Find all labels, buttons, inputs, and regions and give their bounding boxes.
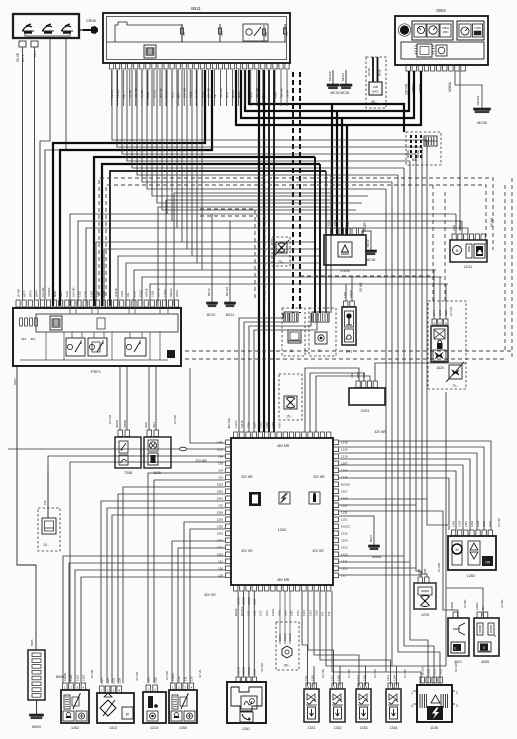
svg-text:1303: 1303 [259, 422, 263, 428]
svg-text:48V MR: 48V MR [227, 417, 231, 429]
svg-text:1152: 1152 [341, 504, 348, 508]
svg-text:8000: 8000 [56, 675, 64, 679]
svg-text:10V VE: 10V VE [157, 288, 161, 297]
svg-text:1312: 1312 [308, 610, 312, 616]
svg-text:1219C: 1219C [234, 420, 238, 428]
svg-text:2V BE: 2V BE [500, 599, 504, 608]
svg-text:1312: 1312 [109, 726, 117, 730]
svg-text:1320: 1320 [90, 291, 94, 297]
svg-text:F15: F15 [220, 30, 224, 36]
svg-text:MC30 MC52: MC30 MC52 [330, 91, 349, 95]
svg-text:F10: F10 [264, 31, 268, 37]
svg-text:134: 134 [346, 221, 350, 226]
svg-text:9013: 9013 [59, 291, 63, 297]
svg-text:2845B: 2845B [123, 420, 127, 428]
svg-text:CC13: CC13 [138, 290, 142, 297]
svg-text:1325: 1325 [83, 291, 87, 297]
svg-text:1365: 1365 [417, 569, 421, 575]
svg-text:CC1: CC1 [33, 51, 37, 57]
svg-text:1303: 1303 [151, 291, 155, 297]
svg-text:122: 122 [218, 504, 223, 508]
svg-text:16V: 16V [350, 373, 354, 378]
svg-text:132B: 132B [423, 569, 427, 575]
svg-text:7308: 7308 [124, 471, 132, 475]
svg-text:3V VE: 3V VE [16, 53, 20, 62]
svg-text:2V NR: 2V NR [165, 670, 169, 680]
svg-text:1301: 1301 [310, 675, 314, 681]
svg-text:1232: 1232 [341, 532, 348, 536]
svg-text:4301: 4301 [277, 422, 281, 428]
svg-text:4V NR: 4V NR [260, 662, 264, 672]
svg-text:V0305A: V0305A [47, 287, 51, 297]
svg-text:901B: 901B [378, 69, 382, 76]
svg-text:B511: B511 [191, 6, 201, 11]
svg-text:S017: S017 [13, 378, 17, 385]
svg-text:1313: 1313 [302, 610, 306, 616]
svg-text:CR06: CR06 [86, 19, 96, 23]
svg-text:KM/H: KM/H [442, 26, 449, 30]
svg-text:6V GR: 6V GR [454, 662, 458, 672]
svg-text:F6: F6 [285, 32, 289, 36]
svg-text:9320: 9320 [444, 310, 448, 316]
svg-text:32V GR: 32V GR [204, 593, 216, 597]
svg-text:8V NR: 8V NR [16, 289, 20, 297]
svg-text:6904: 6904 [253, 422, 257, 428]
svg-text:9150: 9150 [277, 610, 281, 616]
svg-text:70--: 70-- [317, 349, 323, 353]
svg-text:1341: 1341 [217, 497, 224, 501]
svg-text:PSF1: PSF1 [91, 369, 102, 374]
svg-text:1353: 1353 [217, 483, 224, 487]
svg-text:10--: 10-- [43, 543, 49, 547]
svg-text:1342: 1342 [132, 291, 136, 297]
svg-text:10V NR: 10V NR [71, 288, 75, 297]
svg-text:MC35: MC35 [477, 121, 487, 125]
svg-text:131: 131 [321, 611, 325, 616]
svg-text:1344: 1344 [432, 310, 436, 316]
svg-text:1620: 1620 [436, 366, 444, 370]
svg-text:2820: 2820 [144, 422, 148, 428]
svg-text:MC308: MC308 [328, 71, 332, 81]
svg-text:BPT7: BPT7 [22, 290, 26, 297]
svg-text:4: 4 [411, 704, 413, 708]
svg-text:M021: M021 [369, 535, 373, 542]
svg-text:MC11: MC11 [226, 313, 235, 317]
svg-text:1351B: 1351B [108, 289, 112, 297]
svg-text:M132C: M132C [341, 525, 350, 529]
svg-text:1352: 1352 [71, 726, 79, 730]
svg-text:MC32: MC32 [341, 73, 345, 81]
svg-text:32V NR: 32V NR [313, 475, 325, 479]
svg-text:ON: ON [485, 561, 490, 565]
svg-text:1214: 1214 [386, 675, 390, 681]
svg-text:1131: 1131 [246, 610, 250, 616]
svg-text:1352: 1352 [438, 669, 442, 675]
svg-text:133: 133 [341, 574, 346, 578]
svg-text:2: 2 [456, 691, 458, 695]
svg-text:1300: 1300 [246, 422, 250, 428]
svg-text:MC10: MC10 [207, 313, 216, 317]
svg-text:124: 124 [218, 476, 223, 480]
svg-text:2V NR: 2V NR [359, 282, 363, 292]
svg-text:HPF3: HPF3 [175, 290, 179, 297]
svg-text:TURN: TURN [474, 27, 481, 30]
svg-text:GN1211: GN1211 [458, 221, 462, 231]
svg-text:3050E: 3050E [247, 597, 251, 605]
svg-text:M008A: M008A [448, 81, 452, 92]
svg-text:1135A: 1135A [271, 608, 275, 616]
svg-text:1350A: 1350A [171, 673, 175, 681]
svg-text:1261: 1261 [242, 727, 250, 731]
svg-text:1351: 1351 [432, 669, 436, 675]
svg-text:1353: 1353 [179, 726, 187, 730]
svg-text:/1351B: /1351B [114, 288, 118, 297]
svg-text:I241: I241 [346, 350, 353, 354]
svg-text:MC30: MC30 [367, 258, 376, 262]
svg-text:1353: 1353 [75, 675, 79, 681]
svg-text:F4: F4 [182, 32, 186, 36]
svg-text:32V NR: 32V NR [241, 475, 253, 479]
svg-text:1307C: 1307C [236, 597, 240, 605]
svg-text:1219: 1219 [341, 455, 348, 459]
svg-text:1333: 1333 [360, 726, 368, 730]
svg-text:1300: 1300 [217, 448, 224, 452]
svg-text:6132: 6132 [65, 291, 69, 297]
svg-text:4V GR: 4V GR [135, 671, 139, 681]
svg-text:1341B: 1341B [240, 420, 244, 428]
svg-text:BAG: BAG [372, 90, 379, 94]
svg-text:1212: 1212 [330, 675, 334, 681]
svg-text:1304: 1304 [392, 675, 396, 681]
svg-text:15--: 15-- [289, 349, 295, 353]
svg-text:2V NR: 2V NR [173, 414, 177, 424]
svg-text:1213: 1213 [356, 675, 360, 681]
svg-text:2V NR: 2V NR [321, 668, 325, 678]
svg-text:48V MR: 48V MR [277, 578, 290, 582]
svg-text:1330: 1330 [253, 599, 257, 605]
svg-text:1332: 1332 [334, 726, 342, 730]
svg-text:1: 1 [411, 691, 413, 695]
svg-text:9005: 9005 [53, 291, 57, 297]
svg-text:4V VE: 4V VE [198, 669, 202, 678]
svg-text:1316: 1316 [271, 422, 275, 428]
svg-text:130: 130 [190, 676, 194, 681]
svg-text:1211: 1211 [304, 675, 308, 681]
svg-text:1362: 1362 [153, 677, 157, 683]
svg-text:70--: 70-- [278, 260, 284, 264]
svg-text:132: 132 [177, 676, 181, 681]
svg-text:2821: 2821 [152, 422, 156, 428]
svg-text:1334: 1334 [458, 521, 462, 527]
svg-text:1134: 1134 [265, 610, 269, 616]
svg-text:104: 104 [43, 500, 47, 505]
svg-text:1228: 1228 [476, 521, 480, 527]
svg-text:130: 130 [327, 611, 331, 616]
svg-text:48V MR: 48V MR [277, 444, 290, 448]
svg-text:BV: BV [481, 606, 485, 610]
svg-text:6904A: 6904A [234, 608, 238, 616]
svg-text:1352: 1352 [96, 291, 100, 297]
svg-text:2845D: 2845D [115, 420, 119, 428]
svg-text:1322: 1322 [77, 291, 81, 297]
svg-text:1286: 1286 [217, 511, 224, 515]
svg-text:32V NR: 32V NR [374, 430, 386, 434]
svg-text:1035: 1035 [120, 291, 124, 297]
svg-text:1323: 1323 [100, 678, 104, 684]
svg-text:2V NR: 2V NR [403, 668, 407, 678]
svg-text:1353: 1353 [315, 610, 319, 616]
svg-text:6132: 6132 [102, 291, 106, 297]
svg-text:MC30: MC30 [366, 239, 370, 247]
svg-text:15--: 15-- [286, 415, 292, 419]
svg-text:2V NR: 2V NR [347, 668, 351, 678]
svg-text:1345: 1345 [452, 521, 456, 527]
svg-text:M135A: M135A [420, 666, 424, 675]
svg-text:1323: 1323 [341, 546, 348, 550]
svg-text:MC351: MC351 [476, 95, 480, 105]
svg-text:BPT1: BPT1 [21, 54, 25, 62]
svg-text:1361: 1361 [147, 677, 151, 683]
svg-text:1302: 1302 [336, 675, 340, 681]
svg-text:1120: 1120 [153, 471, 161, 475]
svg-text:1151: 1151 [341, 518, 348, 522]
svg-text:MC11A: MC11A [225, 287, 229, 296]
svg-text:80--: 80-- [284, 664, 290, 668]
svg-text:1320: 1320 [278, 528, 286, 532]
svg-text:1350: 1350 [426, 669, 430, 675]
svg-text:134: 134 [218, 455, 223, 459]
svg-text:M: M [456, 249, 459, 253]
svg-text:1262: 1262 [467, 574, 475, 578]
svg-text:C001: C001 [360, 409, 369, 413]
svg-text:1218: 1218 [482, 521, 486, 527]
svg-text:BF4: BF4 [31, 337, 36, 341]
svg-text:6611B: 6611B [367, 68, 371, 76]
svg-text:1320: 1320 [341, 567, 348, 571]
svg-text:1328: 1328 [69, 675, 73, 681]
svg-text:1303: 1303 [362, 675, 366, 681]
svg-text:1228: 1228 [341, 448, 348, 452]
svg-text:MC10: MC10 [207, 288, 211, 296]
svg-text:1324: 1324 [341, 539, 348, 543]
svg-text:GN: GN [126, 293, 130, 297]
svg-text:M: M [456, 548, 459, 552]
svg-text:104: 104 [218, 469, 223, 473]
svg-text:BPF4: BPF4 [35, 290, 39, 297]
svg-text:E: E [454, 647, 456, 651]
svg-text:1325: 1325 [112, 678, 116, 684]
svg-text:1331: 1331 [308, 726, 316, 730]
svg-text:2V GR: 2V GR [108, 414, 112, 424]
svg-text:1367: 1367 [464, 521, 468, 527]
svg-text:1353A: 1353A [163, 289, 167, 297]
svg-text:1334: 1334 [390, 726, 398, 730]
svg-text:1357: 1357 [341, 490, 348, 494]
svg-text:3: 3 [456, 704, 458, 708]
svg-text:MPH: MPH [443, 30, 449, 34]
svg-text:1302: 1302 [265, 422, 269, 428]
svg-text:0004: 0004 [436, 8, 446, 13]
svg-text:10V NR: 10V NR [41, 288, 45, 297]
svg-text:9150: 9150 [333, 220, 337, 226]
svg-text:32V GR: 32V GR [241, 549, 253, 553]
svg-text:1352B: 1352B [63, 673, 67, 681]
svg-text:1355: 1355 [217, 525, 224, 529]
svg-text:1263: 1263 [217, 518, 224, 522]
svg-text:1135: 1135 [430, 726, 438, 730]
svg-text:CV00: CV00 [340, 269, 350, 273]
svg-text:6V NR: 6V NR [490, 217, 494, 227]
svg-text:2V BE: 2V BE [463, 599, 467, 608]
svg-text:GN13A: GN13A [169, 288, 173, 297]
svg-text:1211: 1211 [464, 265, 472, 269]
svg-text:B005: B005 [30, 639, 34, 646]
svg-text:8V BE: 8V BE [90, 669, 94, 678]
svg-text:1235: 1235 [452, 225, 456, 231]
svg-text:1316: 1316 [340, 220, 344, 226]
svg-text:1324: 1324 [106, 678, 110, 684]
svg-text:1340: 1340 [438, 310, 442, 316]
svg-text:1219: 1219 [470, 521, 474, 527]
svg-text:6150: 6150 [327, 220, 331, 226]
svg-text:1363: 1363 [217, 532, 224, 536]
svg-text:2V NR: 2V NR [497, 517, 501, 527]
svg-text:3050B: 3050B [242, 597, 246, 605]
svg-text:1232: 1232 [488, 521, 492, 527]
svg-text:70--: 70-- [452, 384, 458, 388]
svg-text:131: 131 [183, 676, 187, 681]
svg-text:1215: 1215 [421, 613, 429, 617]
svg-text:9V GR: 9V GR [363, 222, 367, 232]
svg-text:HP03B: HP03B [144, 288, 148, 297]
svg-text:9004G: 9004G [416, 150, 420, 158]
svg-text:1363: 1363 [82, 675, 86, 681]
svg-text:1260D: 1260D [450, 602, 454, 610]
svg-text:1133: 1133 [259, 610, 263, 616]
svg-text:6904: 6904 [284, 610, 288, 616]
svg-text:4005: 4005 [481, 660, 489, 664]
svg-text:M1326: M1326 [341, 483, 350, 487]
svg-text:BPF3: BPF3 [29, 290, 33, 297]
svg-text:2V MR: 2V MR [437, 562, 441, 572]
svg-text:2V GR: 2V GR [449, 306, 453, 316]
svg-text:1260A: 1260A [475, 602, 479, 610]
svg-text:1313: 1313 [150, 726, 158, 730]
svg-text:2V NR: 2V NR [373, 668, 377, 678]
svg-text:1326: 1326 [117, 678, 121, 684]
svg-text:M000: M000 [32, 725, 41, 729]
svg-text:BF1: BF1 [22, 337, 27, 341]
svg-text:32V GR: 32V GR [312, 549, 324, 553]
svg-text:E: E [483, 646, 485, 650]
svg-text:AIR: AIR [373, 85, 379, 89]
svg-text:1352: 1352 [296, 610, 300, 616]
svg-text:P: P [126, 712, 129, 717]
svg-text:1362: 1362 [217, 490, 224, 494]
